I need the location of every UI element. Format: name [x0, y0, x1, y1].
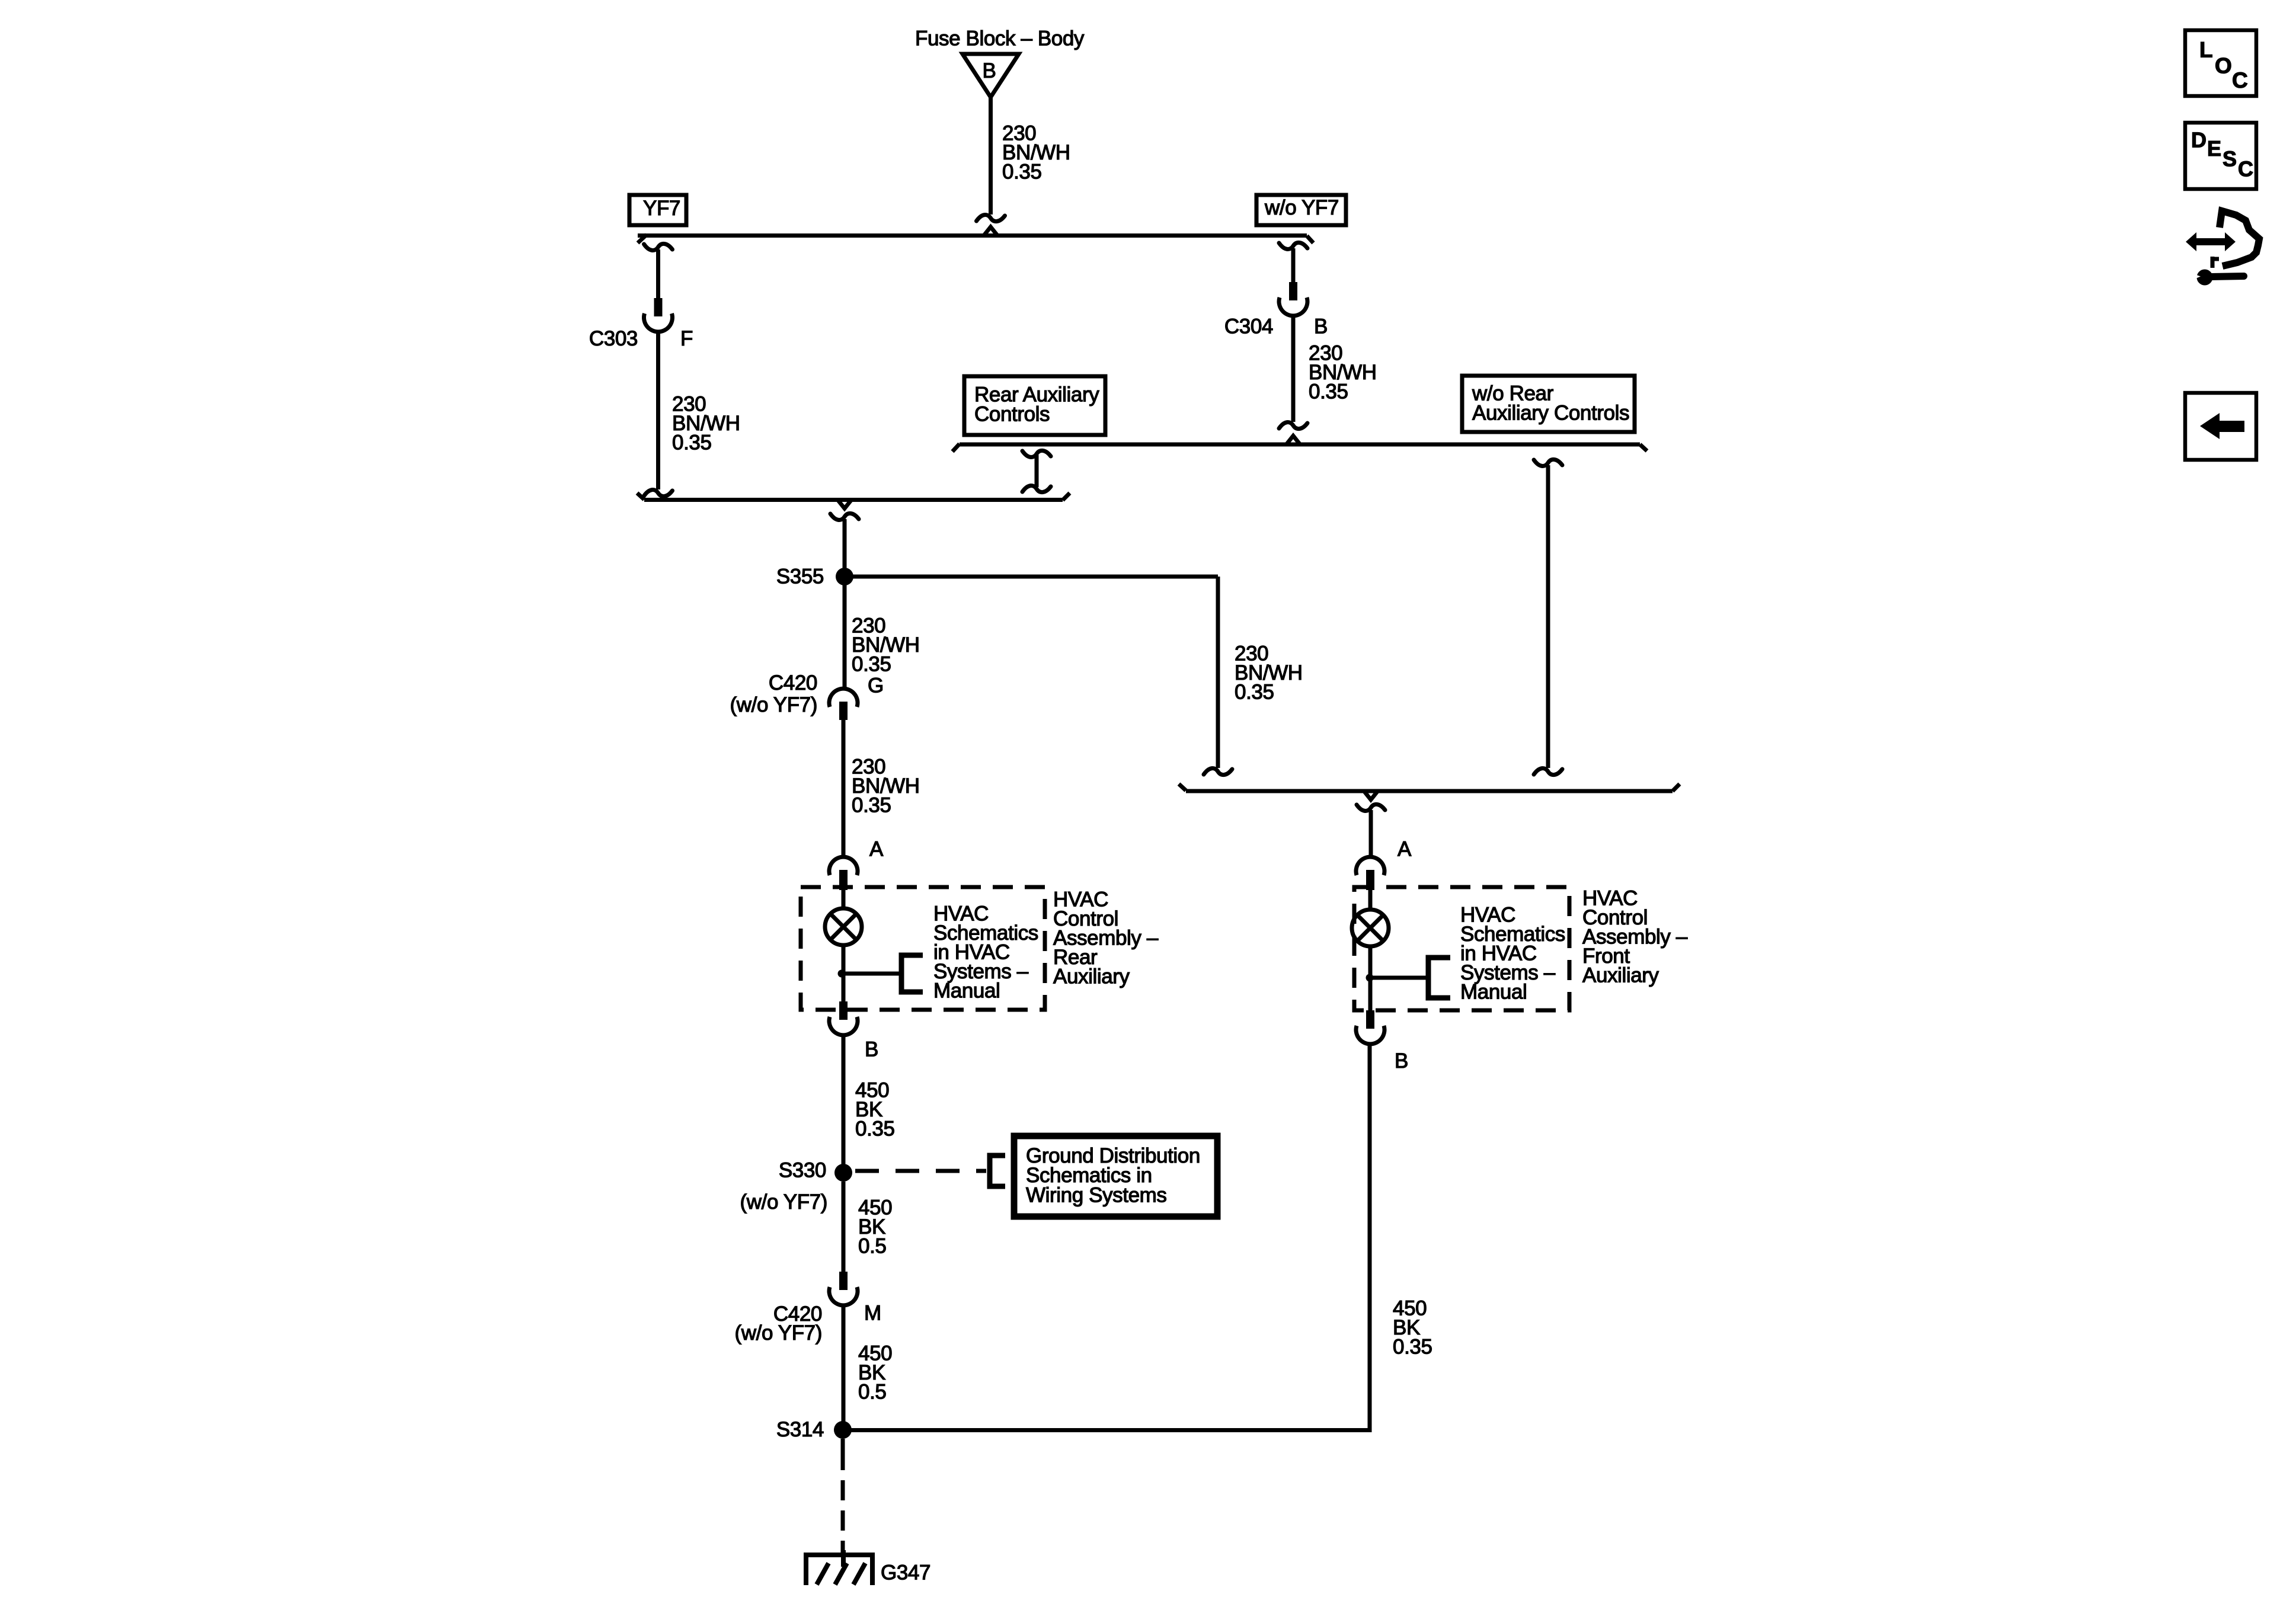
component box HVAC Control Assembly - Front Auxiliary (dashed)	[1354, 887, 1569, 1010]
wire label 450 BK 0.35 (front assembly ground)	[1393, 1297, 1432, 1359]
svg-text:G347: G347	[881, 1561, 930, 1585]
option box Rear Auxiliary Controls	[964, 376, 1105, 435]
svg-text:S355: S355	[776, 565, 824, 588]
pin label B (rear assembly)	[865, 1038, 878, 1061]
component box HVAC Control Assembly - Rear Auxiliary (dashed)	[801, 887, 1045, 1010]
backlight lamp (rear assembly)	[825, 887, 862, 1001]
pin label B (C304)	[1314, 315, 1328, 338]
pin label B (front assembly)	[1395, 1049, 1408, 1073]
connector C303 pin F	[644, 298, 673, 332]
wire label 230 BN/WH 0.35 (w/o YF7 branch)	[1309, 342, 1377, 404]
option box YF7	[629, 195, 686, 225]
svg-text:S: S	[2223, 146, 2237, 171]
node: lamp splice (rear)	[838, 970, 846, 978]
splice S355	[836, 568, 853, 585]
option box w/o YF7	[1256, 195, 1346, 225]
svg-text:G: G	[868, 674, 884, 697]
connector: HVAC front pin A	[1356, 857, 1384, 890]
option box w/o Rear Auxiliary Controls	[1462, 376, 1635, 432]
svg-text:Auxiliary: Auxiliary	[1582, 964, 1659, 987]
connector: HVAC rear pin B	[829, 1001, 858, 1035]
pin label A (rear assembly)	[869, 838, 884, 861]
reference bracket (front): HVAC Schematics	[1370, 958, 1450, 998]
wire: C420 G down to HVAC rear pin A	[842, 720, 846, 856]
wire: bus3 down to HVAC front pin A	[1357, 804, 1385, 857]
svg-text:S314: S314	[776, 1418, 824, 1441]
svg-text:Controls: Controls	[974, 403, 1050, 426]
svg-text:B: B	[983, 59, 996, 82]
ground G347 symbol	[806, 1550, 872, 1585]
svg-text:C304: C304	[1224, 315, 1273, 338]
wire label 230 BN/WH 0.35 (S355 to front bus)	[1235, 642, 1303, 704]
svg-text:0.35: 0.35	[1235, 681, 1274, 704]
svg-text:0.35: 0.35	[852, 653, 891, 676]
svg-text:0.35: 0.35	[1393, 1336, 1432, 1359]
svg-text:B: B	[1314, 315, 1328, 338]
svg-text:O: O	[2215, 53, 2231, 78]
svg-text:(w/o YF7): (w/o YF7)	[740, 1190, 827, 1214]
svg-text:D: D	[2191, 127, 2207, 152]
wire: C303 down to merge bus	[644, 332, 673, 497]
svg-text:Manual: Manual	[1460, 981, 1527, 1004]
dashed reference line from S330	[855, 1169, 986, 1173]
connector C304 pin B	[1279, 282, 1307, 316]
node: lamp splice (front)	[1366, 974, 1374, 982]
svg-text:C420: C420	[769, 671, 817, 694]
wire label 230 BN/WH 0.35 (YF7 branch)	[672, 393, 740, 454]
connector C420 pin M (w/o YF7)	[829, 1272, 858, 1305]
wire label 450 BK 0.5 (C420 to S314)	[858, 1342, 892, 1404]
svg-text:Auxiliary Controls: Auxiliary Controls	[1472, 402, 1629, 425]
svg-text:B: B	[865, 1038, 878, 1061]
wire: S355 down to C420 G	[843, 584, 847, 689]
jumper wire between buses (I connector)	[1022, 450, 1051, 492]
wire: bus to C303 (YF7 branch)	[644, 244, 673, 298]
label S314	[776, 1418, 824, 1441]
connector C420 pin G (w/o YF7)	[829, 689, 858, 720]
wire label 230 BN/WH 0.35 (fuse feed)	[1002, 122, 1070, 184]
reference text HVAC Schematics in HVAC Systems - Manual (front)	[1460, 904, 1565, 1004]
bus: merge to HVAC front pin A	[1179, 784, 1680, 800]
wire: rear-aux bus down to front-aux bus	[1534, 459, 1562, 774]
wire label 450 BK 0.35 (rear assembly ground)	[855, 1079, 895, 1141]
svg-text:C: C	[2238, 157, 2253, 181]
svg-text:YF7: YF7	[643, 197, 680, 220]
svg-text:0.35: 0.35	[1309, 380, 1348, 404]
component label HVAC Control Assembly - Rear Auxiliary	[1053, 888, 1159, 988]
label C420 (w/o YF7) lower	[735, 1302, 822, 1345]
wire: S355 right then down to front-aux bus	[845, 577, 1232, 775]
svg-text:B: B	[1395, 1049, 1408, 1073]
svg-text:S330: S330	[779, 1159, 826, 1182]
wire: S330 down to C420 M	[842, 1182, 846, 1272]
svg-text:Auxiliary: Auxiliary	[1053, 965, 1130, 988]
pin label A (front assembly)	[1398, 838, 1412, 861]
wire label 450 BK 0.5 (S330 to C420)	[858, 1196, 892, 1258]
wire: S314 right and up to HVAC front pin B	[843, 1428, 1370, 1432]
wire: bus to C304 (w/o YF7 branch)	[1279, 242, 1307, 282]
label C303	[589, 327, 638, 350]
svg-text:(w/o YF7): (w/o YF7)	[730, 693, 817, 716]
wire: C420 M down to S314	[842, 1305, 846, 1430]
wire: fuse B down to option bus	[977, 97, 1005, 222]
bus: rear auxiliary controls split	[952, 436, 1647, 452]
svg-text:Fuse Block – Body: Fuse Block – Body	[915, 27, 1085, 50]
pin label F	[680, 327, 693, 350]
svg-text:A: A	[869, 838, 884, 861]
reference bracket (ground distribution)	[990, 1156, 1005, 1186]
svg-text:E: E	[2207, 136, 2221, 161]
svg-text:Wiring Systems: Wiring Systems	[1026, 1183, 1167, 1206]
component label HVAC Control Assembly - Front Auxiliary	[1582, 887, 1688, 987]
wire label 230 BN/WH 0.35 (to pin A rear)	[852, 756, 920, 817]
connector: HVAC rear pin A	[829, 857, 858, 890]
wire label 230 BN/WH 0.35 (S355 down)	[852, 614, 920, 676]
label C420 (w/o YF7) upper	[730, 671, 817, 716]
bus: option split YF7 vs w/o YF7	[638, 227, 1313, 243]
svg-text:w/o YF7: w/o YF7	[1264, 196, 1339, 219]
bus: merge to S355	[637, 493, 1070, 508]
svg-text:0.35: 0.35	[852, 794, 891, 817]
wire: C304 down to rear-aux bus	[1279, 316, 1307, 429]
wire: merge bus down to S355	[830, 513, 859, 577]
svg-text:(w/o YF7): (w/o YF7)	[735, 1321, 822, 1345]
reference text HVAC Schematics in HVAC Systems - Manual (rear)	[933, 902, 1038, 1003]
reference bracket (rear): HVAC Schematics	[842, 955, 923, 992]
wire: front pin B down to S314 run	[1368, 1044, 1372, 1432]
svg-text:F: F	[680, 327, 693, 350]
svg-text:Manual: Manual	[933, 980, 1000, 1003]
splice S330 (w/o YF7)	[834, 1164, 852, 1182]
dashed wire: S314 to G347	[841, 1439, 845, 1553]
svg-text:0.35: 0.35	[855, 1118, 895, 1141]
label C304	[1224, 315, 1273, 338]
pin label M	[864, 1302, 881, 1325]
svg-text:C: C	[2232, 68, 2247, 92]
label G347	[881, 1561, 930, 1585]
svg-text:0.35: 0.35	[1002, 161, 1042, 184]
icon: vehicle navigation with arrows and wrench	[2186, 211, 2259, 286]
pin label G	[868, 674, 884, 697]
icon box back-arrow	[2185, 393, 2256, 460]
svg-text:C303: C303	[589, 327, 638, 350]
svg-text:M: M	[864, 1302, 881, 1325]
svg-text:A: A	[1398, 838, 1412, 861]
label S330 (w/o YF7)	[740, 1159, 827, 1214]
reference box Ground Distribution Schematics in Wiring Systems	[1014, 1136, 1217, 1217]
icon box DESC	[2185, 123, 2256, 189]
label Fuse Block - Body	[915, 27, 1085, 50]
off-page connector B, Fuse Block - Body	[962, 54, 1019, 97]
svg-text:L: L	[2199, 37, 2212, 62]
icon box LOC	[2185, 30, 2256, 96]
splice S314	[834, 1421, 852, 1439]
connector: HVAC front pin B	[1356, 1010, 1384, 1044]
backlight lamp (front assembly)	[1352, 887, 1389, 1010]
svg-text:0.5: 0.5	[858, 1235, 886, 1258]
svg-text:0.5: 0.5	[858, 1381, 886, 1404]
svg-text:0.35: 0.35	[672, 431, 712, 454]
wire: pin B down to S330	[842, 1035, 846, 1173]
label S355	[776, 565, 824, 588]
